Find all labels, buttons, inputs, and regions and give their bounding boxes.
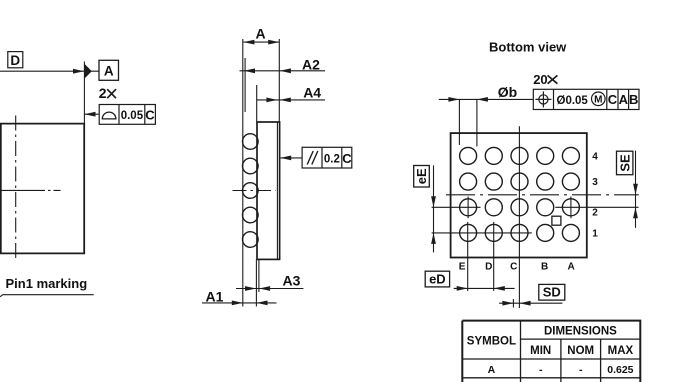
svg-text:D: D <box>10 53 20 68</box>
side view ball 4 <box>243 207 259 223</box>
svg-text:NOM: NOM <box>567 345 594 357</box>
svg-text:Bottom view: Bottom view <box>489 40 567 55</box>
ball C1 <box>511 224 528 241</box>
column C centerline <box>518 126 520 308</box>
extension line A3 left <box>255 259 257 306</box>
svg-text:3: 3 <box>592 177 598 188</box>
datum A extension line <box>83 62 85 124</box>
svg-text:A3: A3 <box>283 272 301 288</box>
svg-text:4: 4 <box>592 152 598 163</box>
svg-text:SD: SD <box>543 285 561 300</box>
svg-text:A1: A1 <box>206 288 224 304</box>
datum A triangle <box>84 64 91 79</box>
dimension A4 line with converging arrows <box>257 98 325 103</box>
ball D1 <box>485 224 502 241</box>
table header line 1 <box>521 338 641 340</box>
ball E3 <box>460 173 477 190</box>
table outer border <box>462 321 640 382</box>
svg-text:A: A <box>567 262 574 273</box>
ball E1 <box>460 224 477 241</box>
Pin1 marking leader line <box>0 295 94 297</box>
D1 column extension line <box>493 222 495 291</box>
svg-text:eD: eD <box>429 271 446 286</box>
table column line nom <box>600 339 602 382</box>
ball C4 <box>511 147 528 164</box>
svg-text:-: - <box>579 364 583 376</box>
dimension label D box <box>8 52 23 68</box>
row 2 line left through E2 <box>432 206 481 208</box>
E2 vertical tick <box>467 197 469 219</box>
side view ball 5 <box>243 232 259 248</box>
svg-text:E: E <box>459 262 466 273</box>
feature control frame: parallel 0.2 C <box>302 147 352 168</box>
parallelism leader arrow <box>280 156 302 161</box>
dimension A2 line with arrows <box>240 68 326 73</box>
SD label box <box>539 284 565 300</box>
ball E4 <box>460 147 477 164</box>
feature control frame: position O0.05 M C A B <box>533 89 639 109</box>
svg-text:A2: A2 <box>302 56 320 72</box>
eE label box rotated <box>414 166 430 188</box>
20x count label <box>533 72 557 87</box>
dimension Ob line with converging arrows <box>439 97 534 102</box>
feature control frame: profile 0.05 C <box>99 105 155 125</box>
dimension A3 line with converging arrows <box>236 286 303 291</box>
row 1 line through E1 D1 C1 <box>432 232 532 234</box>
eD label box <box>425 271 449 287</box>
ball E2 <box>460 199 477 216</box>
svg-text:C: C <box>342 151 352 166</box>
ball A3 <box>562 173 579 190</box>
svg-text:B: B <box>541 262 548 273</box>
svg-text:MAX: MAX <box>608 345 634 357</box>
ball D3 <box>485 173 502 190</box>
svg-text:D: D <box>485 262 492 273</box>
svg-text:C: C <box>510 262 517 273</box>
svg-text:B: B <box>629 92 638 107</box>
SD center tick <box>512 299 514 308</box>
eE dimension line with converging arrows <box>431 165 436 252</box>
svg-text:A: A <box>488 364 496 376</box>
svg-text:C: C <box>608 92 618 107</box>
ball B3 <box>537 173 554 190</box>
bottom view package outline <box>451 133 587 257</box>
extension line A4 left <box>256 85 258 122</box>
ball A2 <box>562 199 579 216</box>
svg-text:M: M <box>594 95 602 106</box>
bottom view horizontal centerline <box>446 194 639 196</box>
svg-text:Ø0.05: Ø0.05 <box>557 95 589 107</box>
ball B2 <box>537 199 554 216</box>
ball D4 <box>485 147 502 164</box>
svg-text:0.625: 0.625 <box>607 364 633 376</box>
svg-text:2: 2 <box>99 85 107 101</box>
ball B1 <box>537 224 554 241</box>
side view centerline <box>233 190 276 192</box>
svg-text:2: 2 <box>592 208 598 219</box>
ball A4 <box>562 147 579 164</box>
svg-text:-: - <box>539 364 543 376</box>
side view backside coating line <box>276 122 278 259</box>
row 2 line right through A2 <box>555 206 638 208</box>
extension line A3 right <box>258 259 260 292</box>
svg-text:SE: SE <box>617 154 632 172</box>
feature control frame leader arrow <box>85 112 100 117</box>
dimension A1 line with converging arrows <box>202 301 277 306</box>
E1 column extension line <box>467 222 469 291</box>
svg-text:0.2: 0.2 <box>324 154 340 166</box>
table row line <box>462 377 640 379</box>
svg-text:eE: eE <box>414 168 429 184</box>
side view ball 3 <box>243 183 259 199</box>
svg-text:20: 20 <box>533 72 547 87</box>
Ob extension line left <box>458 99 460 145</box>
side view body outline <box>257 122 280 259</box>
ball B4 <box>537 147 554 164</box>
svg-text:DIMENSIONS: DIMENSIONS <box>544 325 617 337</box>
extension line right of A <box>278 39 280 122</box>
ball C2 <box>511 199 528 216</box>
table column line min <box>560 339 562 382</box>
A1 corner identifier square <box>552 216 561 225</box>
top view horizontal centerline <box>0 189 61 191</box>
svg-text:SYMBOL: SYMBOL <box>467 335 516 347</box>
side view ball 2 <box>243 158 259 174</box>
table header line 2 <box>462 358 640 360</box>
svg-text:C: C <box>145 107 155 122</box>
datum A label box <box>99 60 119 80</box>
A2 vertical tick <box>570 197 572 219</box>
svg-text:Pin1 marking: Pin1 marking <box>6 276 88 291</box>
svg-text:A4: A4 <box>303 85 321 101</box>
svg-text:A: A <box>104 63 114 78</box>
side view ball 1 <box>243 134 259 150</box>
SE label box rotated <box>617 151 633 175</box>
svg-text:1: 1 <box>592 229 598 240</box>
extension line ball seating <box>244 58 246 112</box>
SE dimension line with converging arrows <box>633 151 638 228</box>
ball D2 <box>485 199 502 216</box>
eD dimension line with converging arrows <box>454 286 515 291</box>
ball A1 <box>562 224 579 241</box>
ball C3 <box>511 173 528 190</box>
svg-text:0.05: 0.05 <box>121 110 144 122</box>
top view vertical centerline <box>15 116 17 259</box>
svg-text:Øb: Øb <box>498 84 517 100</box>
extension line left of A (ball tangent) <box>242 39 244 307</box>
2x count label <box>99 85 116 101</box>
svg-text:MIN: MIN <box>530 345 551 357</box>
SD dimension line with converging arrows <box>499 301 562 306</box>
dimension A line with arrows <box>243 40 279 45</box>
dimension D leader line <box>0 69 99 74</box>
top view package outline <box>1 124 84 254</box>
svg-text:A: A <box>619 92 629 107</box>
table column line symbol <box>520 321 522 382</box>
Ob extension line right <box>476 99 478 146</box>
svg-text:A: A <box>255 26 265 42</box>
